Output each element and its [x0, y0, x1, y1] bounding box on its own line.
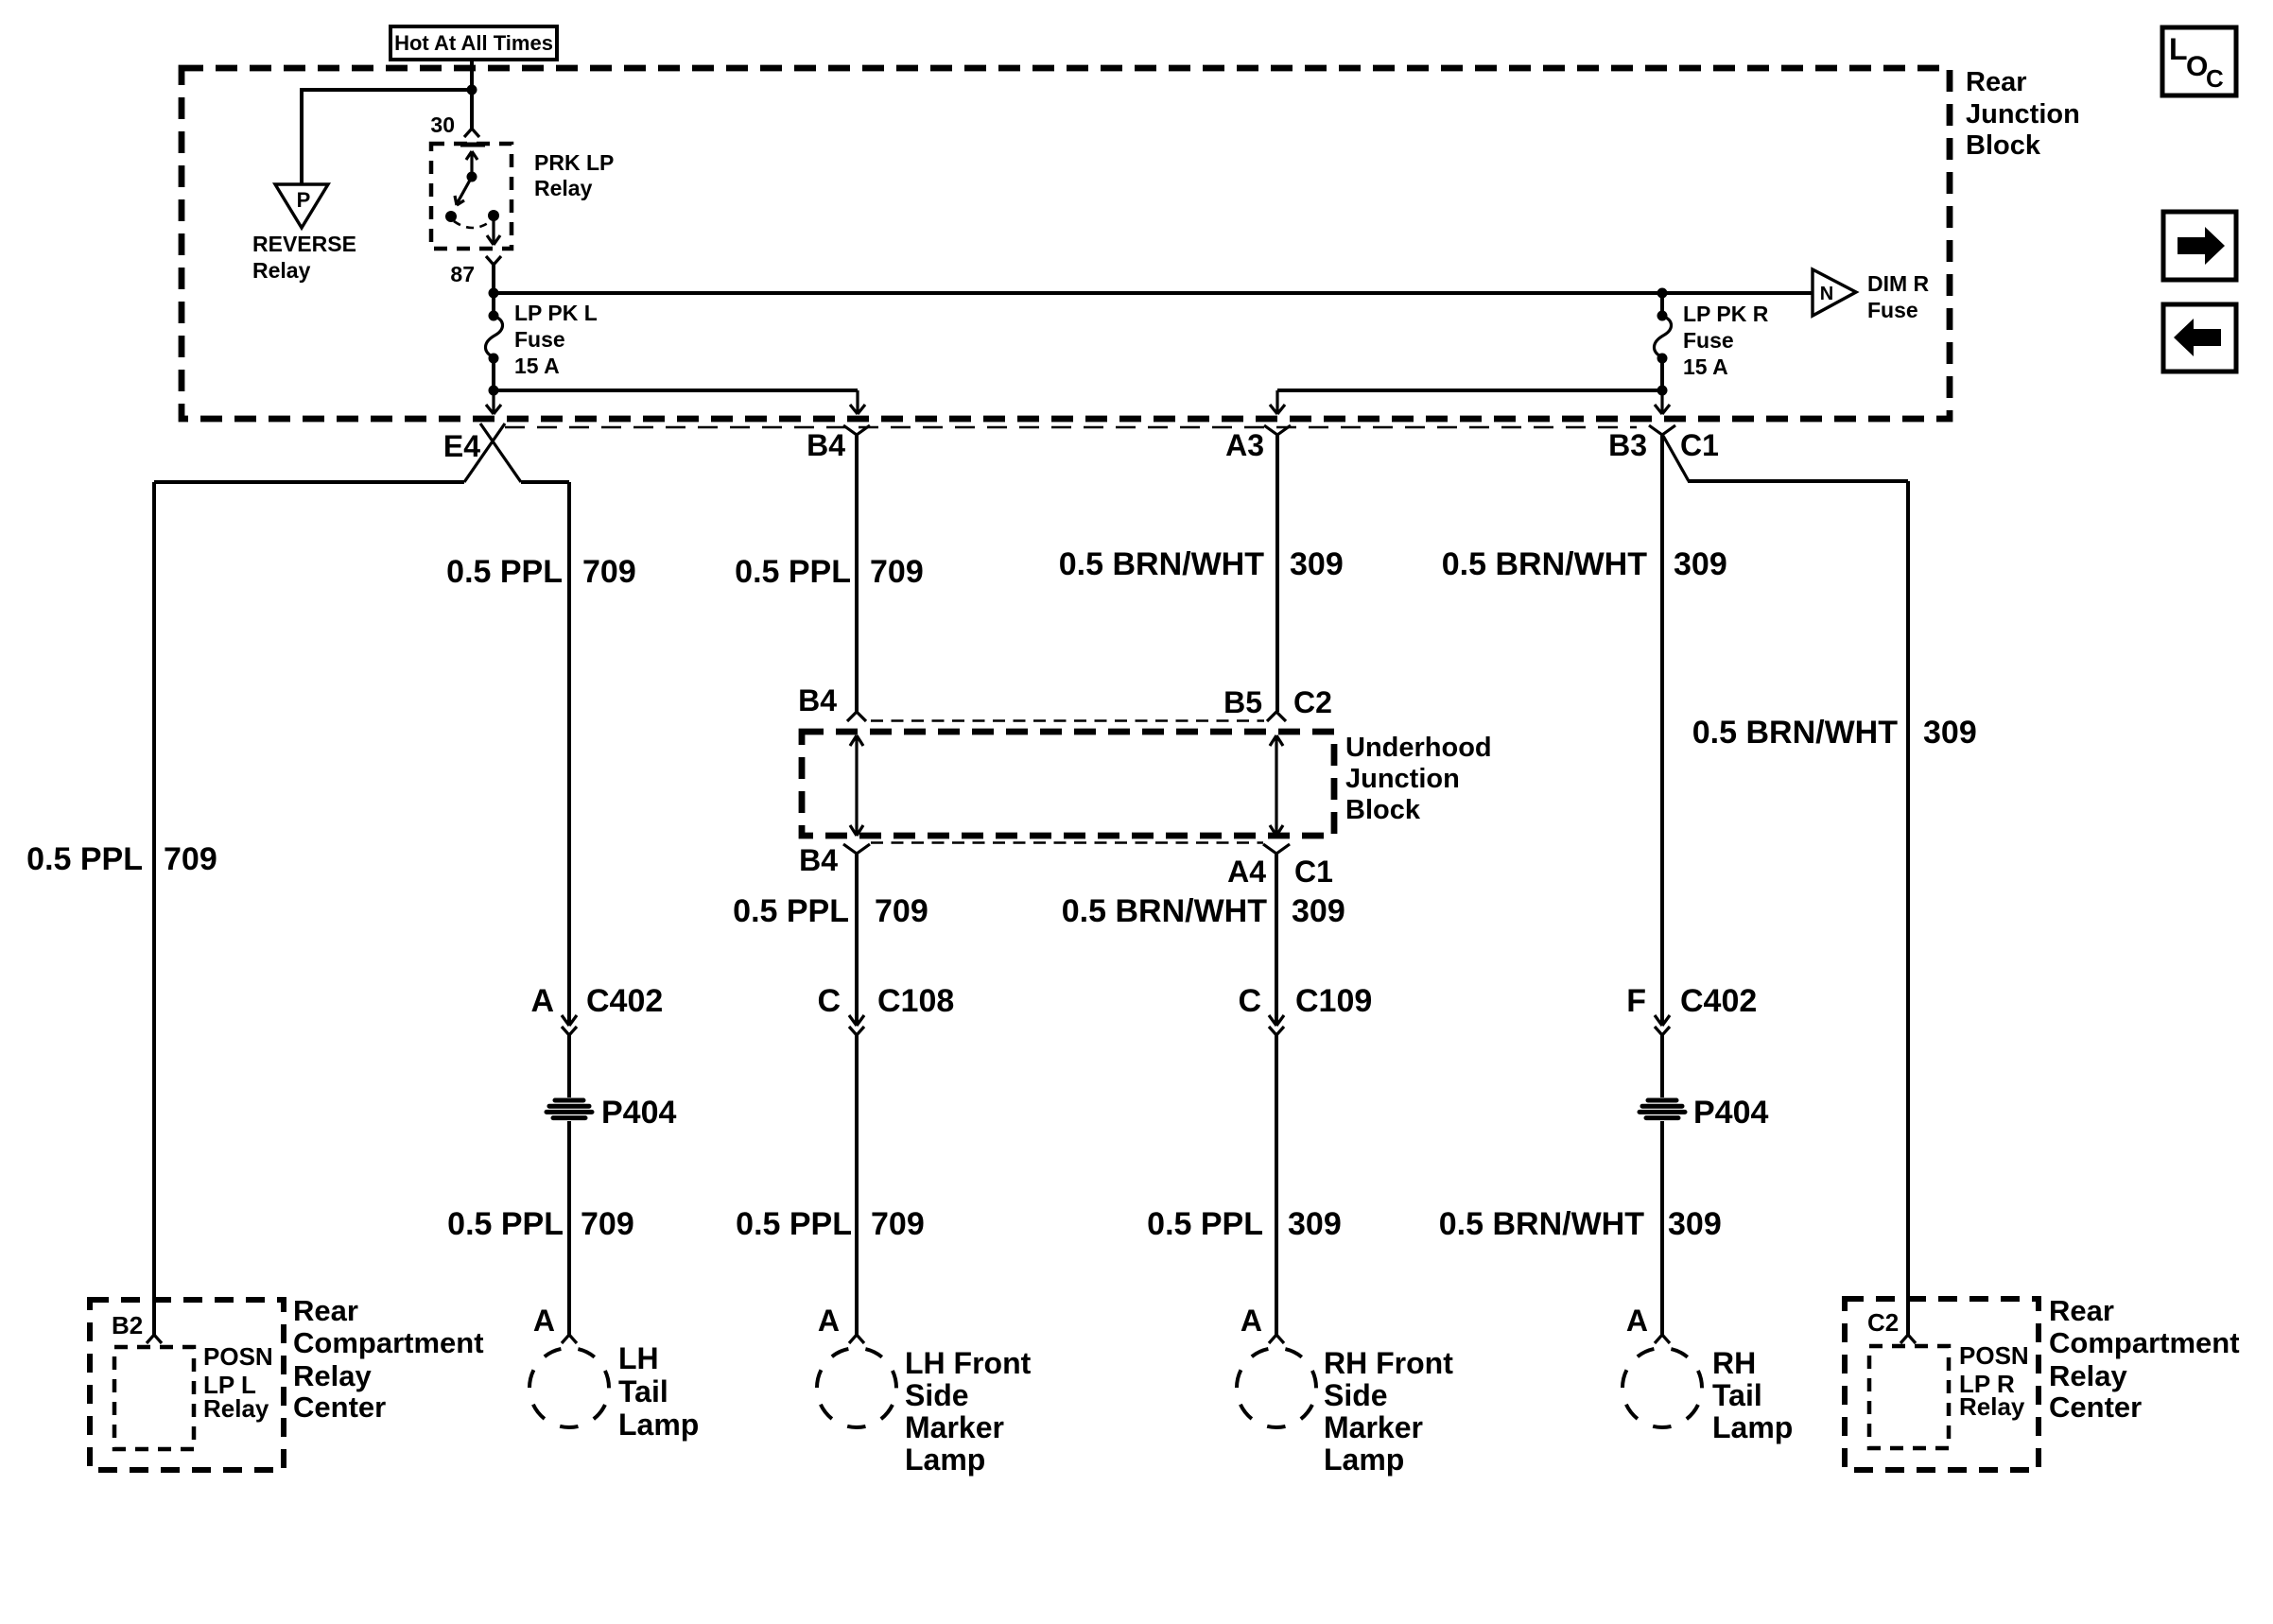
svg-text:Block: Block [1966, 130, 2041, 161]
svg-text:C402: C402 [1680, 983, 1757, 1019]
rear compartment relay center left (dashed box) [90, 1300, 284, 1470]
thin connector line above underhood [871, 719, 1264, 722]
lamp3 fork [1269, 1335, 1284, 1343]
svg-text:309: 309 [1288, 1206, 1342, 1242]
wire lamp3 column mid [1275, 854, 1278, 1025]
relay contact dot right [488, 210, 499, 221]
wire lamp2 column lower [855, 1034, 859, 1335]
svg-text:309: 309 [1923, 715, 1977, 751]
nav arrow right box [2163, 212, 2236, 280]
lamp4 RH Tail Lamp [1622, 1348, 1702, 1427]
arrow exit B3 [1655, 390, 1670, 414]
connector C402 col4 [1655, 1015, 1670, 1035]
pin 30 fork [464, 129, 479, 137]
connector A3 fork [1264, 425, 1291, 435]
node right bus junction [1657, 288, 1668, 299]
svg-text:C: C [817, 983, 841, 1019]
svg-text:Marker: Marker [905, 1410, 1004, 1444]
svg-text:Fuse: Fuse [1683, 328, 1734, 353]
relay POSN LP R (dashed box) [1869, 1346, 1949, 1448]
node hot junction [467, 85, 477, 95]
relay fixed contact bar [460, 143, 485, 147]
svg-text:709: 709 [875, 893, 928, 929]
svg-text:0.5 PPL: 0.5 PPL [735, 554, 851, 590]
wire to reverse relay [302, 90, 472, 184]
reverse relay triangle [275, 184, 328, 228]
svg-text:C2: C2 [1867, 1308, 1899, 1337]
relay POSN LP L (dashed box) [114, 1347, 194, 1449]
svg-text:A: A [530, 983, 554, 1019]
svg-text:B3: B3 [1608, 428, 1647, 462]
svg-text:0.5 BRN/WHT: 0.5 BRN/WHT [1442, 546, 1647, 582]
lamp2 fork [849, 1335, 864, 1343]
svg-text:0.5 BRN/WHT: 0.5 BRN/WHT [1059, 546, 1264, 582]
hot at all times box [390, 26, 557, 60]
connector A4 fork below underhood [1263, 844, 1290, 854]
pin 87 fork [486, 256, 501, 265]
svg-text:C402: C402 [586, 983, 663, 1019]
svg-text:P: P [297, 188, 311, 212]
svg-text:Junction: Junction [1966, 99, 2080, 130]
svg-text:RH: RH [1712, 1346, 1756, 1380]
wire fuse L bottom [492, 357, 495, 390]
node fuse R junction [1657, 386, 1668, 396]
rear compartment relay center right (dashed box) [1845, 1299, 2039, 1470]
svg-text:B2: B2 [112, 1311, 143, 1339]
connector C109 col3 [1269, 1015, 1284, 1035]
svg-text:L: L [2169, 32, 2188, 66]
svg-text:Lamp: Lamp [618, 1408, 699, 1442]
svg-text:Marker: Marker [1324, 1410, 1423, 1444]
svg-text:A: A [1241, 1304, 1262, 1338]
svg-text:709: 709 [870, 554, 924, 590]
fuse LP PK L [489, 311, 499, 321]
svg-text:Relay: Relay [293, 1359, 372, 1392]
svg-text:A3: A3 [1225, 428, 1264, 462]
node 87 junction [489, 288, 499, 299]
connector B4 fork above underhood [847, 712, 866, 721]
svg-text:C: C [1238, 983, 1261, 1019]
svg-text:C1: C1 [1294, 855, 1333, 889]
svg-text:Fuse: Fuse [1867, 298, 1918, 322]
svg-text:709: 709 [871, 1206, 925, 1242]
svg-text:Rear: Rear [1966, 67, 2027, 97]
lamp2 LH Front Side Marker Lamp [817, 1348, 896, 1427]
svg-text:309: 309 [1292, 893, 1345, 929]
svg-text:Lamp: Lamp [1712, 1410, 1793, 1444]
svg-text:0.5 BRN/WHT: 0.5 BRN/WHT [1692, 715, 1898, 751]
svg-text:P404: P404 [601, 1095, 676, 1131]
svg-text:Rear: Rear [293, 1294, 358, 1327]
svg-text:Hot At All Times: Hot At All Times [394, 31, 553, 55]
svg-text:Center: Center [293, 1391, 386, 1424]
svg-text:B4: B4 [798, 683, 837, 717]
svg-text:LH: LH [618, 1341, 659, 1375]
svg-text:0.5 PPL: 0.5 PPL [733, 893, 849, 929]
svg-text:0.5 PPL: 0.5 PPL [447, 1206, 564, 1242]
relay dashed arc [454, 221, 491, 228]
svg-text:C1: C1 [1680, 428, 1719, 462]
svg-text:0.5 BRN/WHT: 0.5 BRN/WHT [1439, 1206, 1644, 1242]
connector B4 fork [843, 425, 870, 435]
svg-text:Fuse: Fuse [514, 327, 565, 352]
svg-text:Junction: Junction [1345, 764, 1460, 794]
svg-text:O: O [2186, 51, 2208, 82]
svg-text:30: 30 [430, 112, 455, 137]
svg-text:15 A: 15 A [514, 354, 560, 378]
svg-text:A: A [818, 1304, 840, 1338]
svg-text:Relay: Relay [203, 1394, 269, 1423]
connector B2 fork [147, 1335, 162, 1343]
connector C2 fork [1900, 1335, 1916, 1343]
wire lamp2 column mid [855, 854, 859, 1025]
svg-text:0.5 PPL: 0.5 PPL [26, 841, 143, 877]
underhood internal arrow left [850, 735, 863, 836]
svg-text:Relay: Relay [252, 258, 311, 283]
svg-text:87: 87 [450, 262, 475, 286]
thin connector line below underhood [871, 841, 1263, 844]
svg-text:A: A [1626, 1304, 1648, 1338]
wire lamp1 column lower [567, 1034, 571, 1335]
svg-text:709: 709 [164, 841, 217, 877]
svg-text:A4: A4 [1227, 855, 1266, 889]
svg-text:Side: Side [1324, 1378, 1388, 1412]
relay moving arm [455, 177, 472, 205]
svg-text:C: C [2206, 64, 2224, 93]
wire hot feed vertical [470, 60, 474, 130]
connector C402 col1 [562, 1015, 577, 1035]
svg-text:0.5 PPL: 0.5 PPL [736, 1206, 852, 1242]
wire C1 horizontal [1688, 479, 1908, 483]
svg-text:Relay: Relay [1959, 1392, 2025, 1421]
thin connector line under junction block [505, 426, 1637, 429]
nav arrow left box [2163, 304, 2236, 371]
wire E4 right horizontal [521, 480, 569, 484]
relay contact dot left [445, 211, 457, 222]
svg-text:0.5 PPL: 0.5 PPL [446, 554, 563, 590]
arrow exit A3 [1270, 390, 1285, 414]
arrow exit E4 [486, 390, 501, 414]
svg-text:Relay: Relay [2049, 1359, 2127, 1392]
svg-text:Underhood: Underhood [1345, 733, 1492, 763]
svg-text:Relay: Relay [534, 176, 593, 200]
svg-text:Rear: Rear [2049, 1294, 2114, 1327]
rear junction block (dashed box) [182, 68, 1950, 419]
svg-text:Lamp: Lamp [905, 1443, 985, 1477]
svg-text:Tail: Tail [618, 1374, 668, 1408]
relay output arrow down [487, 216, 500, 245]
DIM R fuse triangle [1813, 269, 1856, 316]
lamp3 RH Front Side Marker Lamp [1237, 1348, 1316, 1427]
wire C1 diagonal branch [1663, 436, 1689, 481]
splice P404 col4 [1640, 1095, 1768, 1131]
lamp1 fork [562, 1335, 577, 1343]
connector C108 col2 [849, 1015, 864, 1035]
splice P404 col1 [547, 1095, 676, 1131]
wire lamp4 column lower [1660, 1034, 1664, 1335]
svg-text:B5: B5 [1223, 685, 1262, 719]
wire bus to DIM R fuse [494, 291, 1812, 295]
svg-text:709: 709 [582, 554, 636, 590]
wire pin87 down [492, 265, 495, 318]
svg-text:POSN: POSN [203, 1342, 273, 1371]
wire lamp4 column [1660, 435, 1664, 1025]
svg-text:Tail: Tail [1712, 1378, 1762, 1412]
svg-text:N: N [1820, 284, 1833, 304]
connector B4 fork below underhood [843, 844, 870, 854]
svg-text:POSN: POSN [1959, 1341, 2029, 1370]
svg-text:F: F [1626, 983, 1646, 1019]
svg-text:15 A: 15 A [1683, 354, 1728, 379]
svg-text:309: 309 [1674, 546, 1727, 582]
svg-text:DIM R: DIM R [1867, 271, 1930, 296]
svg-text:LP PK L: LP PK L [514, 301, 598, 325]
svg-text:LP PK R: LP PK R [1683, 302, 1769, 326]
wire lamp1 column upper [567, 482, 571, 1025]
connector B3 fork [1649, 425, 1675, 435]
svg-text:Compartment: Compartment [2049, 1326, 2240, 1359]
fuse LP PK R [1660, 293, 1664, 316]
svg-text:E4: E4 [443, 429, 480, 463]
svg-text:C2: C2 [1293, 685, 1332, 719]
svg-text:B4: B4 [799, 843, 838, 877]
svg-text:RH Front: RH Front [1324, 1346, 1453, 1380]
wire lamp3 column lower [1275, 1034, 1278, 1335]
svg-text:P404: P404 [1693, 1095, 1768, 1131]
svg-text:LH Front: LH Front [905, 1346, 1032, 1380]
wire lamp2 column upper [855, 435, 859, 712]
LOC box [2162, 27, 2236, 95]
wire y413 left segment [494, 389, 858, 392]
wire fuse R bottom [1660, 357, 1664, 390]
connector B5 fork [1267, 712, 1286, 721]
relay armature arrow up [466, 151, 477, 176]
wire lamp3 column upper [1275, 435, 1279, 712]
lamp4 fork [1655, 1335, 1670, 1343]
wire right rail [1906, 481, 1910, 1335]
svg-text:Compartment: Compartment [293, 1326, 484, 1359]
svg-text:0.5 PPL: 0.5 PPL [1147, 1206, 1263, 1242]
lamp1 LH Tail Lamp [529, 1348, 609, 1427]
arrow exit B4 [850, 390, 865, 414]
svg-text:C108: C108 [877, 983, 954, 1019]
svg-text:REVERSE: REVERSE [252, 232, 356, 256]
wire left rail [152, 482, 156, 1335]
underhood junction block (dashed box) [802, 732, 1334, 836]
svg-text:C109: C109 [1295, 983, 1372, 1019]
svg-text:309: 309 [1290, 546, 1344, 582]
svg-text:B4: B4 [807, 428, 845, 462]
relay PRK LP dashed box [431, 144, 512, 249]
svg-text:0.5 BRN/WHT: 0.5 BRN/WHT [1062, 893, 1267, 929]
underhood internal arrow right [1270, 735, 1283, 836]
svg-text:309: 309 [1668, 1206, 1722, 1242]
svg-text:709: 709 [581, 1206, 634, 1242]
wire E4 left horizontal [154, 480, 464, 484]
svg-text:Center: Center [2049, 1391, 2142, 1424]
svg-text:Block: Block [1345, 795, 1421, 825]
wire y413 right segment [1277, 389, 1662, 392]
svg-text:Lamp: Lamp [1324, 1443, 1404, 1477]
connector E4 X crossing [464, 423, 521, 482]
node fuse L junction [489, 386, 499, 396]
svg-text:A: A [533, 1304, 555, 1338]
relay pivot dot [467, 172, 477, 182]
svg-text:Side: Side [905, 1378, 969, 1412]
svg-text:PRK LP: PRK LP [534, 150, 614, 175]
